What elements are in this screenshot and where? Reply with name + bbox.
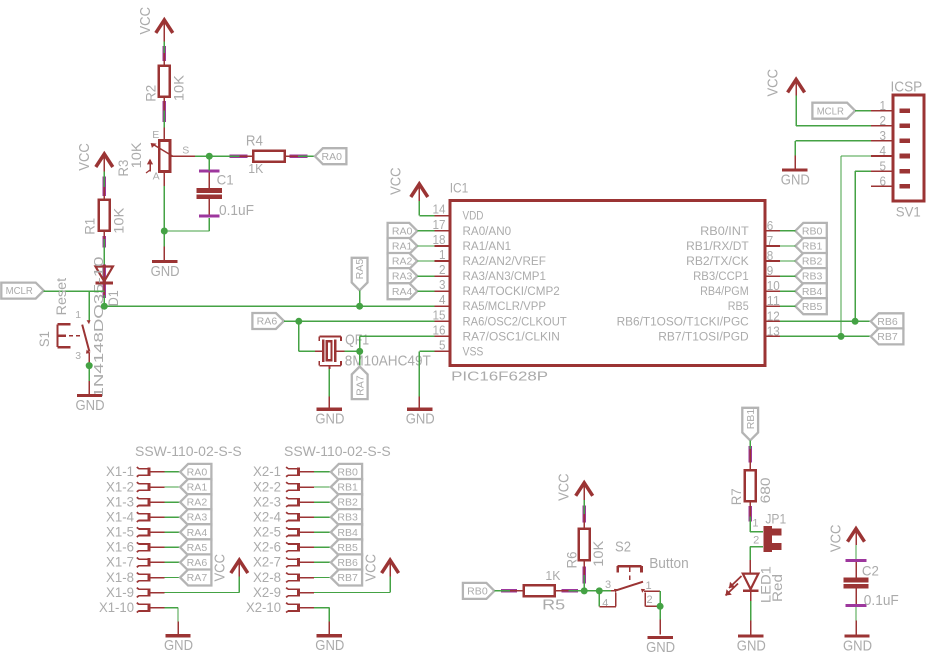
svg-text:X1-5: X1-5	[106, 525, 134, 540]
svg-text:C1: C1	[217, 172, 234, 188]
svg-text:RA6: RA6	[257, 317, 278, 328]
svg-text:RB1: RB1	[802, 242, 823, 253]
svg-text:GND: GND	[76, 397, 105, 414]
svg-text:Reset: Reset	[54, 278, 69, 316]
svg-text:RA3: RA3	[392, 272, 413, 283]
svg-text:PIC16F628P: PIC16F628P	[451, 369, 548, 384]
svg-text:RB6: RB6	[877, 317, 898, 328]
svg-text:GND: GND	[781, 171, 810, 188]
svg-text:R7: R7	[729, 488, 744, 505]
svg-text:RB3: RB3	[802, 272, 823, 283]
svg-text:2: 2	[753, 535, 759, 547]
svg-text:9: 9	[767, 263, 774, 278]
svg-text:RB2: RB2	[802, 257, 823, 268]
svg-text:RB1: RB1	[337, 483, 358, 494]
svg-text:1: 1	[439, 247, 446, 262]
svg-text:RA5: RA5	[187, 543, 208, 554]
svg-text:VCC: VCC	[213, 554, 229, 582]
svg-text:4: 4	[602, 598, 608, 610]
svg-text:X1-10: X1-10	[99, 600, 134, 615]
svg-text:X1-4: X1-4	[106, 509, 134, 524]
svg-text:14: 14	[433, 202, 446, 217]
svg-text:MCLR: MCLR	[817, 106, 844, 117]
svg-text:RA6: RA6	[187, 558, 208, 569]
svg-text:S: S	[182, 144, 189, 156]
svg-text:16: 16	[433, 322, 446, 337]
svg-text:VCC: VCC	[388, 167, 404, 195]
svg-text:SSW-110-02-S-S: SSW-110-02-S-S	[135, 444, 242, 459]
svg-text:RA4: RA4	[392, 287, 413, 298]
svg-text:2: 2	[880, 113, 887, 128]
svg-text:RB6: RB6	[337, 558, 358, 569]
svg-text:Button: Button	[649, 555, 689, 572]
svg-text:RB5: RB5	[802, 302, 823, 313]
svg-text:6: 6	[767, 218, 774, 233]
svg-text:RB0: RB0	[802, 227, 823, 238]
svg-text:SV1: SV1	[896, 204, 921, 219]
svg-text:3: 3	[75, 350, 81, 362]
svg-text:X1-6: X1-6	[106, 540, 134, 555]
svg-text:X2-7: X2-7	[253, 555, 281, 570]
svg-text:RA3/AN3/CMP1: RA3/AN3/CMP1	[463, 271, 546, 283]
svg-text:C2: C2	[862, 563, 879, 579]
svg-text:RA0/AN0: RA0/AN0	[463, 226, 512, 238]
svg-text:RB2/TX/CK: RB2/TX/CK	[686, 256, 749, 268]
svg-text:RB7: RB7	[337, 573, 358, 584]
svg-text:D1: D1	[106, 290, 121, 306]
svg-text:R6: R6	[565, 552, 580, 569]
svg-text:13: 13	[767, 323, 780, 338]
svg-text:RA7/OSC1/CLKIN: RA7/OSC1/CLKIN	[463, 331, 560, 343]
svg-text:GND: GND	[406, 411, 435, 428]
svg-text:4: 4	[439, 292, 446, 307]
svg-text:5: 5	[880, 158, 887, 173]
svg-text:Red: Red	[770, 574, 785, 602]
svg-text:X1-7: X1-7	[106, 555, 134, 570]
svg-text:11: 11	[767, 293, 780, 308]
svg-text:7: 7	[767, 233, 774, 248]
svg-text:RA1: RA1	[392, 242, 413, 253]
svg-text:RA2: RA2	[392, 257, 413, 268]
svg-text:VCC: VCC	[828, 525, 844, 553]
svg-text:3: 3	[605, 579, 611, 591]
svg-text:12: 12	[767, 308, 780, 323]
svg-text:10K: 10K	[591, 541, 606, 567]
svg-text:R5: R5	[542, 598, 565, 614]
svg-text:15: 15	[433, 307, 446, 322]
svg-text:X2-6: X2-6	[253, 540, 281, 555]
svg-text:X1-9: X1-9	[106, 585, 134, 600]
svg-text:X2-3: X2-3	[253, 494, 281, 509]
svg-text:RB7/T1OSI/PGD: RB7/T1OSI/PGD	[658, 331, 748, 343]
svg-text:SSW-110-02-S-S: SSW-110-02-S-S	[284, 444, 391, 459]
svg-text:17: 17	[433, 217, 446, 232]
svg-text:GND: GND	[315, 637, 344, 654]
svg-text:RA1/AN1: RA1/AN1	[463, 241, 512, 253]
svg-text:3: 3	[439, 277, 446, 292]
svg-text:X1-3: X1-3	[106, 494, 134, 509]
svg-text:R4: R4	[246, 134, 263, 150]
svg-text:1K: 1K	[545, 568, 560, 583]
svg-text:RB4: RB4	[337, 528, 358, 539]
svg-text:10K: 10K	[111, 208, 126, 234]
svg-text:1K: 1K	[248, 161, 263, 176]
svg-text:GND: GND	[164, 637, 193, 654]
svg-text:RB7: RB7	[877, 332, 898, 343]
svg-text:VSS: VSS	[463, 346, 484, 358]
svg-text:RB0: RB0	[337, 468, 358, 479]
svg-text:RB1: RB1	[746, 408, 757, 429]
svg-text:RA4: RA4	[187, 528, 208, 539]
svg-text:X2-1: X2-1	[253, 464, 281, 479]
svg-text:GND: GND	[646, 639, 675, 656]
svg-text:RA1: RA1	[187, 483, 208, 494]
svg-text:RB0: RB0	[467, 587, 488, 598]
svg-text:RB3/CCP1: RB3/CCP1	[693, 271, 749, 283]
svg-text:RA7: RA7	[355, 375, 366, 396]
svg-text:10: 10	[767, 278, 780, 293]
svg-text:A: A	[153, 171, 160, 183]
svg-text:2: 2	[439, 262, 446, 277]
svg-text:RA5/MCLR/VPP: RA5/MCLR/VPP	[463, 301, 547, 313]
svg-text:X2-8: X2-8	[253, 570, 281, 585]
svg-text:10K: 10K	[172, 75, 187, 101]
svg-text:4: 4	[880, 143, 887, 158]
svg-text:0.1uF: 0.1uF	[219, 203, 254, 219]
svg-text:RA5: RA5	[355, 258, 366, 279]
svg-text:X2-2: X2-2	[253, 479, 281, 494]
svg-text:VCC: VCC	[363, 554, 379, 582]
svg-text:2: 2	[647, 594, 653, 606]
svg-text:6: 6	[880, 173, 887, 188]
svg-text:18: 18	[433, 232, 446, 247]
svg-text:GND: GND	[315, 411, 344, 428]
svg-text:VCC: VCC	[766, 69, 782, 97]
svg-text:S1: S1	[37, 331, 52, 347]
svg-text:E: E	[152, 129, 159, 141]
svg-text:X2-10: X2-10	[246, 600, 281, 615]
svg-text:5: 5	[439, 337, 446, 352]
svg-text:GND: GND	[737, 637, 766, 654]
svg-text:VCC: VCC	[138, 7, 154, 35]
svg-text:X1-1: X1-1	[106, 464, 134, 479]
svg-text:RA0: RA0	[322, 152, 343, 163]
svg-text:RB5: RB5	[337, 543, 358, 554]
svg-text:RB3: RB3	[337, 513, 358, 524]
svg-text:RA4/TOCKI/CMP2: RA4/TOCKI/CMP2	[463, 286, 560, 298]
svg-text:X2-9: X2-9	[253, 585, 281, 600]
svg-text:1: 1	[75, 309, 81, 321]
svg-text:MCLR: MCLR	[6, 286, 33, 297]
svg-text:RB0/INT: RB0/INT	[700, 226, 749, 238]
svg-text:RA2/AN2/VREF: RA2/AN2/VREF	[463, 256, 546, 268]
svg-text:RA2: RA2	[187, 498, 208, 509]
svg-text:IC1: IC1	[450, 181, 469, 196]
svg-text:X2-5: X2-5	[253, 525, 281, 540]
svg-text:680: 680	[758, 477, 773, 503]
svg-text:RB5: RB5	[728, 301, 749, 313]
svg-text:X1-8: X1-8	[106, 570, 134, 585]
svg-text:ICSP: ICSP	[891, 79, 923, 96]
svg-text:RA0: RA0	[392, 227, 413, 238]
svg-text:RA7: RA7	[187, 573, 208, 584]
svg-text:RA6/OSC2/CLKOUT: RA6/OSC2/CLKOUT	[463, 316, 567, 328]
svg-text:RB2: RB2	[337, 498, 358, 509]
svg-text:JP1: JP1	[765, 511, 786, 526]
svg-text:RA0: RA0	[187, 468, 208, 479]
svg-text:8: 8	[767, 248, 774, 263]
svg-text:RB6/T1OSO/T1CKI/PGC: RB6/T1OSO/T1CKI/PGC	[617, 316, 749, 328]
svg-text:10K: 10K	[129, 142, 144, 168]
svg-text:VDD: VDD	[463, 211, 484, 223]
svg-text:RA3: RA3	[187, 513, 208, 524]
svg-text:1N4148DO35-10: 1N4148DO35-10	[91, 257, 106, 398]
svg-text:X1-2: X1-2	[106, 479, 134, 494]
svg-text:S2: S2	[615, 539, 631, 556]
svg-text:GND: GND	[151, 263, 180, 280]
svg-text:QF1: QF1	[345, 333, 369, 349]
svg-text:RB1/RX/DT: RB1/RX/DT	[686, 241, 749, 253]
svg-text:1: 1	[880, 98, 887, 113]
svg-text:0.1uF: 0.1uF	[864, 593, 899, 609]
svg-text:1: 1	[646, 580, 652, 592]
svg-text:VCC: VCC	[557, 473, 573, 501]
svg-text:X2-4: X2-4	[253, 509, 281, 524]
svg-text:RB4: RB4	[802, 287, 823, 298]
svg-text:R1: R1	[82, 218, 97, 235]
svg-text:GND: GND	[843, 637, 872, 654]
svg-text:3: 3	[880, 128, 887, 143]
svg-text:R2: R2	[144, 85, 159, 102]
svg-text:RB4/PGM: RB4/PGM	[700, 286, 749, 298]
svg-text:VCC: VCC	[77, 143, 93, 171]
svg-text:1: 1	[752, 518, 758, 530]
